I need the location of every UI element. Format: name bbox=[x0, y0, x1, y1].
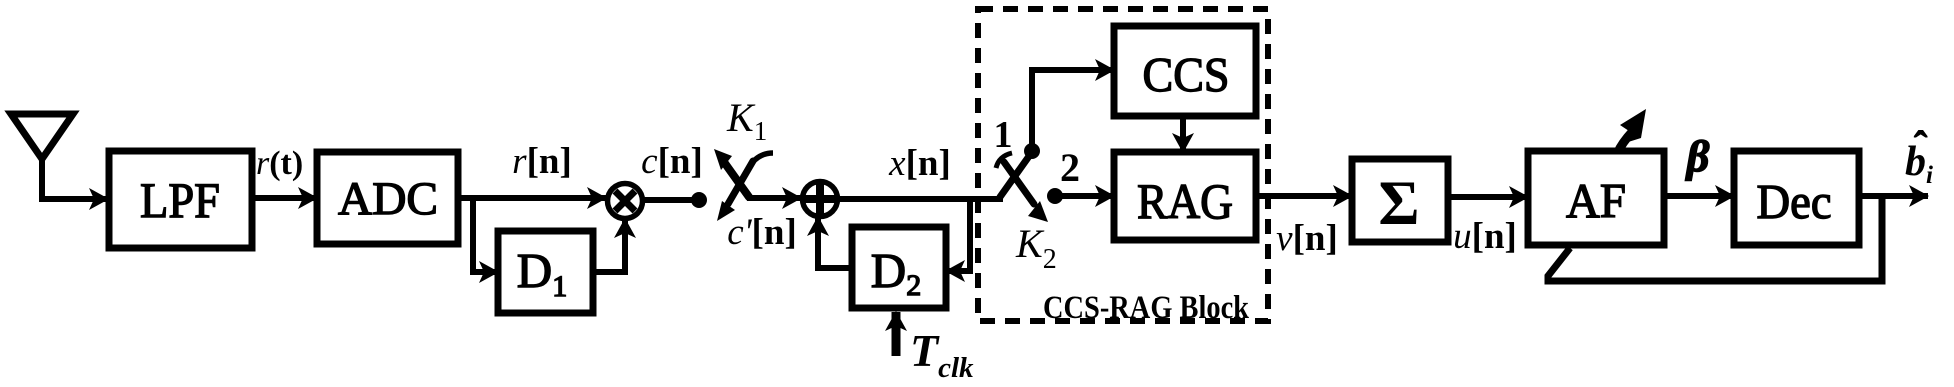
svg-text:c'[n]: c'[n] bbox=[727, 212, 797, 253]
wire switch pos1 to CCS bbox=[1032, 70, 1114, 151]
adder bbox=[803, 182, 838, 217]
multiplier bbox=[608, 184, 643, 219]
adaptive arrow on AF bbox=[1618, 132, 1632, 152]
wire switch pos2 to RAG bbox=[1055, 193, 1114, 199]
wire multiplier to node bbox=[642, 197, 699, 203]
svg-text:r[n]: r[n] bbox=[512, 141, 572, 182]
svg-text:LPF: LPF bbox=[140, 172, 220, 228]
svg-text:r(t): r(t) bbox=[256, 145, 303, 182]
wire Sigma to AF bbox=[1448, 194, 1528, 200]
wire D1 to multiplier bbox=[593, 219, 625, 272]
block AF bbox=[1528, 151, 1664, 245]
wire LPF to ADC bbox=[252, 195, 317, 201]
svg-text:RAG: RAG bbox=[1137, 173, 1233, 229]
svg-text:K1: K1 bbox=[726, 95, 767, 146]
block Dec bbox=[1734, 151, 1859, 245]
node dot 1 bbox=[1024, 143, 1040, 159]
svg-text:c[n]: c[n] bbox=[641, 141, 703, 182]
svg-text:ADC: ADC bbox=[338, 173, 438, 225]
wire AF to Dec bbox=[1664, 193, 1734, 199]
wire branch to D1 bbox=[473, 200, 498, 272]
wire antenna to LPF bbox=[39, 196, 108, 202]
svg-text:v[n]: v[n] bbox=[1276, 218, 1338, 259]
feedback wire Dec output to AF bbox=[1548, 196, 1882, 281]
wire adder to switch K2 bbox=[837, 196, 1003, 202]
svg-text:Tclk: Tclk bbox=[910, 325, 974, 384]
svg-text:β: β bbox=[1685, 132, 1710, 181]
wire Dec to output bbox=[1859, 193, 1928, 199]
svg-text:D2: D2 bbox=[871, 243, 921, 302]
block Sigma bbox=[1352, 159, 1448, 242]
svg-text:AF: AF bbox=[1566, 173, 1626, 228]
node dot bbox=[691, 192, 707, 208]
wire ADC to multiplier bbox=[458, 195, 606, 201]
wire RAG to Sigma bbox=[1256, 193, 1352, 199]
wire branch to D2 bbox=[946, 199, 970, 271]
wire switch to adder bbox=[747, 195, 801, 201]
svg-text:CCS-RAG Block: CCS-RAG Block bbox=[1043, 290, 1250, 326]
block RAG bbox=[1114, 152, 1256, 240]
wire D2 to adder bbox=[818, 217, 852, 268]
switch K1 bbox=[714, 149, 773, 221]
block D1 bbox=[498, 231, 593, 313]
svg-text:Σ: Σ bbox=[1378, 168, 1419, 238]
clock arrow Tclk bbox=[892, 312, 901, 356]
svg-text:Dec: Dec bbox=[1757, 174, 1832, 229]
block LPF bbox=[109, 151, 252, 248]
block ADC bbox=[317, 152, 458, 244]
svg-text:u[n]: u[n] bbox=[1453, 216, 1517, 257]
svg-text:2: 2 bbox=[1060, 145, 1080, 190]
svg-text:CCS: CCS bbox=[1143, 47, 1230, 102]
block D2 bbox=[852, 227, 946, 308]
svg-text:K2: K2 bbox=[1015, 221, 1057, 275]
dashed box CCS-RAG bbox=[978, 9, 1268, 321]
block CCS bbox=[1114, 26, 1256, 116]
svg-text:1: 1 bbox=[994, 114, 1013, 156]
node dot 2 bbox=[1047, 188, 1063, 204]
svg-text:D1: D1 bbox=[517, 243, 567, 303]
wire CCS to RAG bbox=[1180, 116, 1186, 152]
switch K2 bbox=[996, 152, 1048, 222]
antenna bbox=[11, 114, 73, 199]
svg-text:ˆ: ˆ bbox=[1914, 123, 1928, 168]
svg-text:x[n]: x[n] bbox=[888, 143, 951, 184]
